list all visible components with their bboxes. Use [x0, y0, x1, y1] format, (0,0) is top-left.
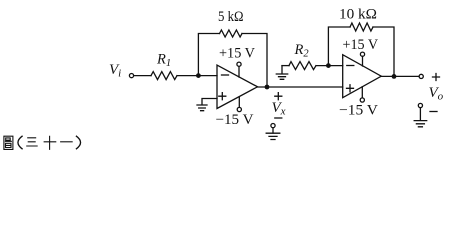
plus sign at Vo annotation	[433, 74, 440, 81]
caption parentheses	[18, 136, 81, 149]
op-amp U2 triangle	[343, 55, 382, 98]
wire U1 non-inverting input to ground	[202, 99, 217, 105]
wire U1 output to node B and on to U2 plus input	[258, 86, 343, 88]
op-amp U2 plus sign	[347, 85, 354, 92]
CJK shi (ten) glyph drawn	[44, 136, 57, 150]
wire feedback1 right leg down	[242, 34, 267, 88]
node B junction dot (Vx node)	[265, 85, 270, 90]
svg-text:+15 V: +15 V	[343, 37, 379, 53]
wire feedback2 right leg down	[373, 27, 394, 76]
wire U2 output to Vo terminal	[381, 75, 419, 77]
input terminal Vi (open circle)	[129, 74, 133, 78]
plus sign at Vx annotation	[275, 93, 282, 100]
op-amp U2 minus sign	[347, 65, 354, 67]
resistor 10k feedback	[350, 23, 373, 31]
CJK san (three) glyph drawn	[26, 138, 38, 146]
Vx reference stub	[272, 128, 274, 133]
op-amp U1 +V pin stub	[238, 67, 240, 78]
op-amp U1 minus sign (inverting input)	[222, 74, 229, 76]
Vo reference terminal circle	[418, 103, 422, 107]
node A junction dot	[196, 73, 201, 78]
output terminal Vo (open circle)	[419, 74, 423, 78]
CJK yi (one) glyph drawn	[60, 141, 73, 143]
wire feedback1 left leg up	[198, 34, 219, 76]
ground G2 (R2 left) stub	[281, 66, 283, 74]
node D junction dot (output)	[392, 74, 397, 79]
minus sign at Vo annotation	[430, 111, 437, 113]
op-amp U2 -V pin stub	[361, 87, 363, 98]
wire G2 to R2	[282, 65, 289, 67]
op-amp U1 -V pin stub	[238, 97, 240, 108]
ground G1 (U1 + input)	[197, 105, 207, 111]
Vo reference stub	[419, 108, 421, 121]
wire R1 to node A	[177, 75, 217, 77]
wire feedback2 left leg up	[328, 27, 350, 66]
op-amp U1 -V pin circle	[237, 107, 241, 111]
caption figure number	[4, 136, 73, 150]
ground G3 (Vx reference)	[266, 133, 280, 139]
node C junction dot	[326, 63, 331, 68]
op-amp U1 triangle	[217, 65, 258, 108]
op-amp U1 plus sign (non-inverting input)	[219, 93, 226, 100]
op-amp U1 +V pin circle	[237, 62, 241, 66]
wire Vi terminal to R1	[134, 75, 151, 77]
resistor R2	[289, 62, 316, 70]
wire R2 to node C and U2 inverting input	[316, 65, 343, 67]
ground G4 (Vo reference)	[414, 121, 427, 127]
svg-text:10 kΩ: 10 kΩ	[339, 7, 377, 23]
op-amp U2 +V pin stub	[362, 56, 364, 66]
Vx reference terminal circle	[271, 124, 275, 128]
resistor R1	[151, 72, 177, 80]
svg-text:5 kΩ: 5 kΩ	[218, 9, 244, 25]
svg-text:−15 V: −15 V	[216, 112, 255, 128]
svg-text:−15 V: −15 V	[339, 103, 379, 119]
op-amp U2 +V pin circle	[360, 52, 364, 56]
ground G2 bars	[276, 74, 287, 79]
op-amp U2 -V pin circle	[360, 98, 364, 102]
svg-text:+15 V: +15 V	[219, 46, 256, 62]
minus sign at Vx annotation	[275, 117, 282, 119]
CJK tu (figure) glyph drawn	[4, 136, 13, 149]
resistor 5k feedback	[220, 30, 243, 37]
